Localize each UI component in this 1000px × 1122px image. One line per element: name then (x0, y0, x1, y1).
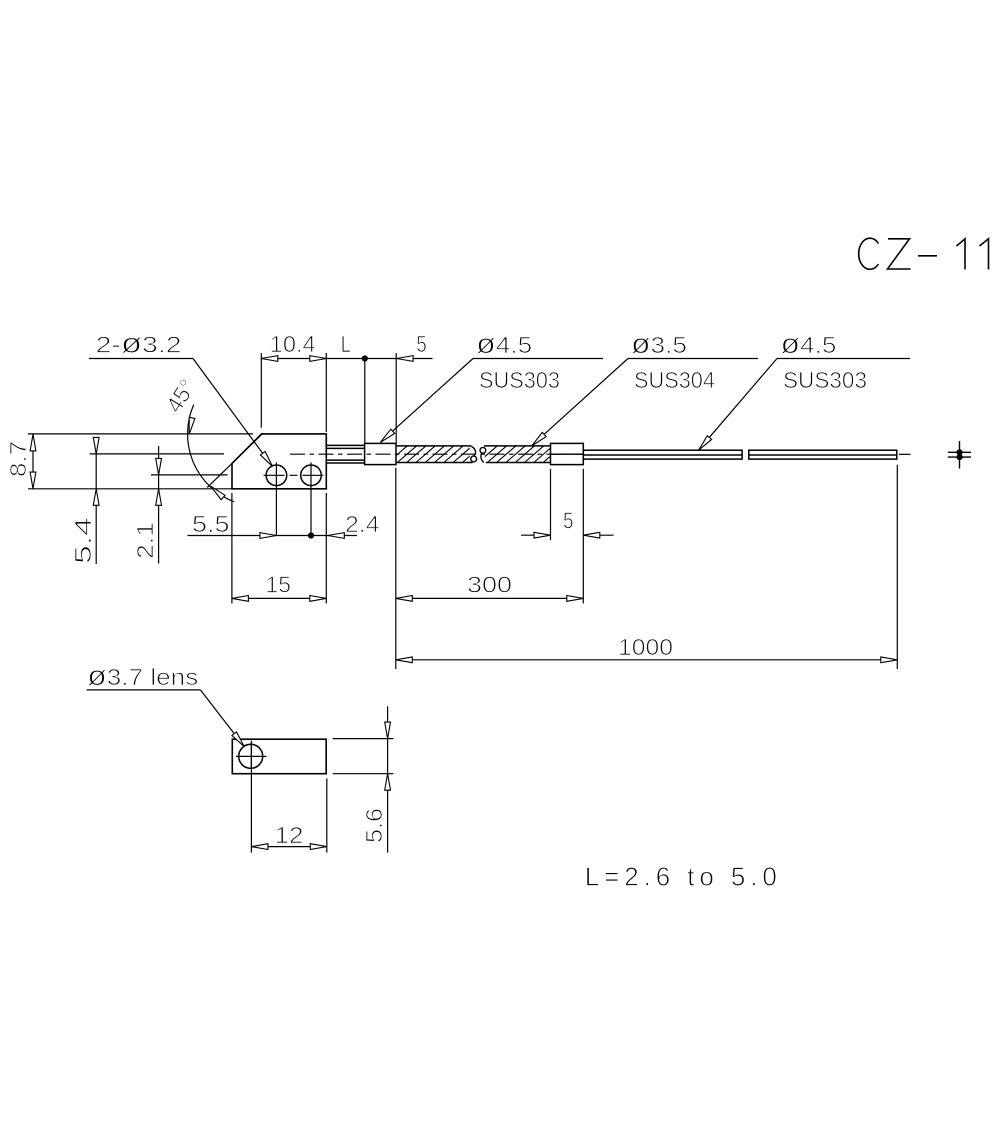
dimension 5 sleeve2 extension line left (550, 469, 552, 540)
leader dia3.5 SUS304 (532, 359, 758, 446)
svg-text:ø3.7 lens: ø3.7 lens (87, 660, 198, 691)
leader 2-dia3.2 arrowhead (260, 451, 274, 468)
dimension 300 line and arrows (396, 596, 584, 602)
svg-text:8.7: 8.7 (5, 441, 31, 477)
svg-text:1000: 1000 (618, 634, 673, 660)
svg-text:L: L (341, 331, 351, 357)
svg-text:ø3.5: ø3.5 (631, 328, 687, 359)
dimension 5.6 line and arrows (385, 706, 391, 852)
cable axis center line (dash-dot) (290, 453, 583, 455)
leader arrowhead dia4.5 first (379, 429, 395, 444)
dimension 12 line and arrows (251, 844, 326, 850)
thin cable segment 1 (dia4.5 SUS303) (583, 450, 742, 459)
svg-text:2.4: 2.4 (345, 511, 380, 537)
tube break symbol right (S-curve with loop) (480, 447, 486, 462)
leader dia3.7 lens (87, 690, 245, 746)
dimension 15 extension lines (232, 493, 326, 603)
dimension 8.7 extension lines (28, 434, 253, 489)
dimension 5.6 extension lines (333, 739, 394, 774)
dimension line 5.5 and 2.4 (188, 532, 358, 538)
hatched flexible tube section B (dia3.5 SUS304) (478, 446, 572, 463)
cable axis center line tail at end (899, 453, 911, 455)
sleeve 1 (protective boot at head) (365, 443, 396, 464)
svg-text:45°: 45° (161, 375, 201, 418)
dimension 5.5 2.4 arrows (260, 533, 277, 539)
leader 2-dia3.2 shelf and diagonal (89, 359, 272, 467)
hatched flexible tube section A (dia3.5 SUS304) (388, 446, 491, 463)
holes center line (dash-dot) (264, 474, 329, 476)
svg-text:5.5: 5.5 (192, 511, 230, 537)
svg-text:12: 12 (275, 822, 304, 848)
dimension 5.4 line and arrows (93, 437, 99, 564)
dimension 2.1 line and arrows (156, 446, 162, 564)
svg-text:SUS303: SUS303 (783, 367, 867, 393)
cable end view crosshair (far right) (948, 441, 971, 469)
svg-text:L=2.6 to 5.0: L=2.6 to 5.0 (585, 862, 777, 892)
lens circle dia3.7 (236, 742, 266, 769)
lens view rectangle (bottom view) (232, 739, 326, 774)
dimension 5 sleeve2 lines and arrows (521, 534, 614, 536)
thin cable segment 2 (dia4.5 SUS303) (749, 450, 897, 459)
dimension 8.7 line and arrows (30, 434, 36, 489)
svg-text:10.4: 10.4 (270, 331, 316, 357)
leader dia4.5 SUS303 first (381, 359, 604, 443)
dimension 1000 extension line right (896, 465, 898, 669)
leader arrowhead dia4.5 second (696, 436, 711, 452)
svg-text:SUS304: SUS304 (634, 367, 715, 393)
extension line at sleeve1 right (395, 353, 397, 443)
dimension 2.1 extension line (holes axis) (151, 474, 228, 476)
leader dia4.5 SUS303 second (699, 359, 910, 450)
svg-text:SUS303: SUS303 (479, 367, 560, 393)
45 degree arc arrows (186, 417, 195, 434)
title text CZ-11 (stroke glyphs) (859, 238, 989, 269)
dimension 12 extension lines (251, 741, 326, 853)
svg-text:5.4: 5.4 (70, 517, 96, 564)
leader arrowhead dia3.5 (530, 432, 546, 447)
sleeve 2 (ferrule, 5 long) (551, 443, 584, 464)
svg-text:5: 5 (563, 508, 574, 534)
dimension 5.4 extension line (center axis) (90, 453, 224, 455)
svg-text:15: 15 (266, 572, 292, 598)
chamfer extension line (45 deg edge) (207, 433, 263, 488)
mounting hole H1 (2-dia3.2) (266, 462, 287, 535)
tube break symbol left (S-curve with loop) (471, 446, 477, 462)
45 degree dimension arc (188, 405, 235, 502)
svg-text:300: 300 (467, 572, 512, 598)
svg-text:2-ø3.2: 2-ø3.2 (96, 328, 182, 359)
extension line at sleeve1 left (L boundary, dot) (362, 355, 368, 443)
extension line at chamfer top (260, 353, 262, 428)
top dimension line (10.4, L, 5) (261, 358, 432, 360)
svg-text:ø4.5: ø4.5 (781, 328, 837, 359)
svg-text:ø4.5: ø4.5 (476, 328, 532, 359)
extension line at body right edge (325, 353, 327, 432)
leader arrowhead dia3.7 lens (232, 732, 247, 749)
dimension 1000 line and arrows (396, 657, 898, 663)
svg-text:2.1: 2.1 (132, 522, 158, 559)
sensor head body (side view) (232, 434, 326, 489)
top dimension arrows (261, 356, 278, 362)
dimension 15 line and arrows (232, 596, 326, 602)
svg-text:5: 5 (416, 331, 427, 357)
mounting hole H2 (2-dia3.2) (301, 462, 322, 535)
svg-text:5.6: 5.6 (361, 808, 387, 843)
dimension 300 extension lines (396, 468, 584, 669)
fiber nipple tube between body and sleeve (326, 445, 364, 463)
